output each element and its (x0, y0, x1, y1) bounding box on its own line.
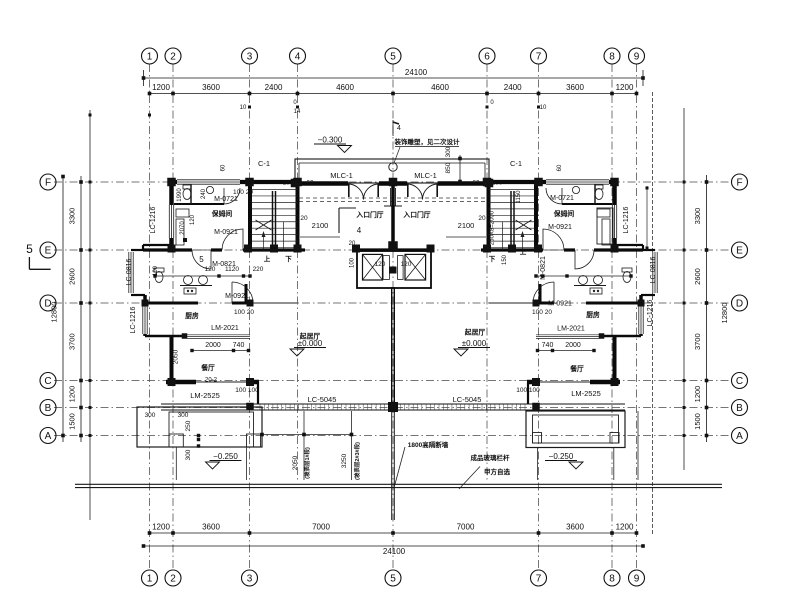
door M-0721 right (546, 188, 562, 204)
svg-text:1990: 1990 (177, 188, 183, 202)
right nanny bed (597, 208, 613, 244)
svg-text:1200: 1200 (616, 83, 634, 92)
level -0.250 right (545, 452, 583, 469)
svg-text:300: 300 (185, 449, 192, 460)
svg-text:100: 100 (153, 265, 159, 276)
left terrace (137, 407, 262, 480)
svg-text:LC-0816: LC-0816 (126, 258, 133, 285)
svg-text:300: 300 (445, 146, 452, 157)
svg-text:上: 上 (264, 254, 271, 263)
grid bubbles left A-F (40, 174, 56, 444)
svg-text:F: F (736, 178, 742, 189)
grid column lines 1-9 (150, 64, 637, 570)
svg-text:±0.000: ±0.000 (298, 339, 323, 348)
svg-text:厨房: 厨房 (185, 311, 199, 320)
right wall dim extension (646, 186, 649, 250)
row E interior wall (143, 248, 643, 251)
svg-text:5: 5 (199, 255, 204, 264)
right bay extension line (637, 411, 639, 480)
svg-text:1200: 1200 (152, 523, 170, 532)
terrace corner columns (246, 403, 540, 411)
svg-text:3700: 3700 (68, 333, 77, 350)
right stair labels (489, 247, 527, 263)
right unit fixtures (572, 185, 632, 294)
svg-text:C-1: C-1 (510, 159, 522, 168)
svg-text:2400: 2400 (265, 83, 283, 92)
svg-text:12800: 12800 (50, 302, 59, 323)
bath dimension line (153, 274, 632, 277)
svg-text:150: 150 (502, 254, 508, 265)
svg-text:8: 8 (609, 574, 615, 585)
svg-text:1150: 1150 (516, 190, 522, 204)
svg-text:20: 20 (300, 215, 308, 222)
svg-text:保姆间: 保姆间 (553, 209, 575, 218)
svg-text:300: 300 (178, 412, 189, 419)
svg-text:6: 6 (484, 52, 490, 63)
svg-text:M-0921: M-0921 (214, 229, 238, 236)
svg-text:A: A (45, 431, 52, 442)
svg-text:100 20: 100 20 (233, 189, 253, 196)
bottom overall dimension 24100 (142, 544, 645, 556)
section marker 4 top center (393, 120, 401, 136)
svg-text:保姆间: 保姆间 (211, 209, 233, 218)
svg-text:5: 5 (26, 242, 33, 256)
boundary line intersection dots (89, 114, 686, 438)
svg-text:2: 2 (170, 52, 176, 63)
center party wall upper (391, 183, 395, 250)
svg-text:装饰雕塑，见二次设计: 装饰雕塑，见二次设计 (394, 137, 461, 146)
col7 interior wall (534, 182, 538, 250)
svg-text:24100: 24100 (383, 547, 406, 556)
svg-text:M-0821: M-0821 (540, 256, 547, 280)
svg-text:100 100: 100 100 (516, 387, 540, 394)
top dimension chain (148, 83, 639, 95)
window LC-1216 right wall (612, 205, 618, 238)
svg-text:3700: 3700 (693, 333, 702, 350)
left hall corner mark (339, 208, 356, 233)
right exterior wall with bays (615, 180, 659, 379)
svg-text:LC-1216: LC-1216 (130, 306, 137, 333)
left exterior wall with bays (128, 180, 172, 379)
svg-text:7: 7 (536, 574, 542, 585)
center fence below (392, 411, 395, 520)
svg-text:7: 7 (536, 52, 542, 63)
svg-text:7000: 7000 (312, 523, 330, 532)
svg-text:3300: 3300 (693, 208, 702, 225)
svg-text:3600: 3600 (566, 523, 584, 532)
row D interior wall (145, 284, 641, 303)
svg-text:100 20: 100 20 (234, 309, 254, 316)
svg-text:成品玻璃栏杆: 成品玻璃栏杆 (471, 453, 511, 462)
top overall dimension 24100 (142, 68, 645, 86)
door M-0921 right hall (543, 229, 564, 250)
svg-text:1500: 1500 (693, 413, 702, 430)
site edge lines (75, 484, 722, 487)
window LC-1216 left wall (169, 205, 175, 238)
svg-text:2400: 2400 (504, 83, 522, 92)
svg-text:2000: 2000 (205, 342, 221, 349)
svg-text:入口门厅: 入口门厅 (403, 210, 430, 219)
svg-text:MLC-1: MLC-1 (330, 171, 353, 180)
svg-text:100: 100 (492, 180, 503, 187)
svg-text:LC-1216: LC-1216 (623, 206, 630, 233)
svg-text:M-0921: M-0921 (548, 301, 572, 308)
svg-text:5: 5 (390, 574, 396, 585)
svg-text:M-0921: M-0921 (225, 293, 249, 300)
svg-text:餐厅: 餐厅 (200, 363, 215, 372)
svg-text:−0.250: −0.250 (549, 452, 574, 461)
svg-text:MLC-1: MLC-1 (414, 171, 437, 180)
grid bubbles top 1-9 (142, 48, 645, 64)
svg-text:LM-2021: LM-2021 (211, 325, 239, 332)
svg-text:9: 9 (634, 52, 640, 63)
svg-text:1200: 1200 (616, 523, 634, 532)
svg-text:餐厅: 餐厅 (569, 364, 584, 373)
svg-text:B: B (736, 403, 743, 414)
level -0.250 left (206, 452, 242, 469)
svg-text:60: 60 (306, 180, 314, 187)
center entry step stub (384, 188, 402, 206)
level -0.300 porch (314, 136, 352, 153)
svg-text:LM-2525: LM-2525 (190, 391, 220, 400)
paving dimension lines (260, 411, 353, 480)
svg-text:60: 60 (472, 180, 480, 187)
svg-text:C-1: C-1 (258, 159, 270, 168)
svg-text:D: D (736, 299, 743, 310)
svg-text:1500: 1500 (68, 413, 77, 430)
svg-text:100: 100 (350, 257, 356, 268)
svg-text:M-0721: M-0721 (214, 196, 238, 203)
door M-0921 left hall (222, 229, 243, 250)
svg-text:厨房: 厨房 (586, 310, 600, 319)
svg-text:2600: 2600 (693, 268, 702, 285)
entry door MLC-1 left (348, 184, 364, 200)
svg-text:2070: 2070 (180, 221, 186, 235)
svg-text:LC-5045: LC-5045 (308, 395, 337, 404)
svg-text:3600: 3600 (202, 523, 220, 532)
svg-text:起居厅: 起居厅 (464, 328, 486, 337)
left hall dot (183, 238, 187, 242)
svg-text:4600: 4600 (336, 83, 354, 92)
svg-text:2: 2 (170, 574, 176, 585)
svg-text:12800: 12800 (720, 303, 729, 324)
door M-0821 right (575, 250, 594, 269)
svg-text:3250: 3250 (341, 453, 348, 468)
section marker 5 left edge (26, 242, 50, 269)
structural columns (142, 178, 645, 412)
svg-text:100 100: 100 100 (235, 387, 259, 394)
level 0.000 right (454, 339, 490, 356)
door M-0821 left (192, 250, 211, 269)
svg-text:5: 5 (390, 52, 396, 63)
right site boundary line (652, 92, 654, 535)
svg-text:上: 上 (520, 247, 527, 256)
svg-text:220: 220 (253, 266, 264, 273)
left staircase (252, 190, 298, 251)
svg-text:(坡表层1#段): (坡表层1#段) (303, 447, 311, 479)
svg-text:9: 9 (634, 574, 640, 585)
right nanny bath wall (562, 184, 612, 204)
right extension line (683, 108, 685, 470)
svg-text:LC-1216: LC-1216 (647, 299, 654, 326)
leader glass rail (459, 467, 480, 490)
center party wall lower (392, 287, 395, 403)
svg-text:4: 4 (295, 52, 301, 63)
row C wall right with LM-2525 (527, 382, 620, 404)
svg-text:4: 4 (397, 125, 401, 132)
hall 2100 dim lines (300, 236, 486, 238)
svg-text:250X8=2000: 250X8=2000 (490, 210, 496, 245)
bottom dimension chain (148, 523, 639, 535)
svg-text:100 20: 100 20 (532, 309, 552, 316)
door M-0721 left (224, 188, 240, 204)
right terrace (526, 411, 625, 480)
svg-text:下: 下 (489, 255, 496, 263)
svg-text:M-0921: M-0921 (548, 224, 572, 231)
svg-text:120: 120 (205, 266, 216, 273)
right staircase (489, 190, 535, 251)
svg-text:下: 下 (285, 255, 292, 263)
svg-text:LC-0816: LC-0816 (650, 256, 657, 283)
right dimension chain (693, 175, 729, 442)
leader partition wall (395, 447, 406, 486)
svg-text:A: A (736, 431, 743, 442)
svg-text:250: 250 (185, 420, 192, 431)
svg-text:1800高隔断墙: 1800高隔断墙 (408, 440, 449, 449)
left site boundary line (89, 110, 91, 520)
svg-text:24100: 24100 (405, 68, 428, 77)
row F exterior wall with C-1 windows (169, 179, 617, 185)
svg-text:740: 740 (233, 342, 245, 349)
svg-text:±0.000: ±0.000 (462, 339, 487, 348)
svg-text:(坡表层2#3#段): (坡表层2#3#段) (353, 442, 361, 480)
porch steps dashed (299, 198, 485, 202)
svg-text:7000: 7000 (457, 523, 475, 532)
svg-text:20-2: 20-2 (205, 378, 218, 384)
sculpture note underline (395, 146, 459, 148)
grid row lines A-F (54, 182, 732, 436)
svg-text:1200: 1200 (693, 386, 702, 403)
svg-text:740: 740 (542, 342, 554, 349)
col6 hall wall (487, 183, 491, 250)
level 0.000 left (290, 339, 326, 356)
svg-text:F: F (45, 178, 51, 189)
svg-text:4600: 4600 (431, 83, 449, 92)
entry door MLC-1 right (407, 184, 423, 200)
left unit fixtures (154, 185, 214, 294)
svg-text:E: E (736, 246, 743, 257)
svg-text:1200: 1200 (152, 83, 170, 92)
svg-text:1: 1 (147, 52, 153, 63)
window LC-1216 left kitchen (142, 301, 148, 334)
svg-text:3600: 3600 (566, 83, 584, 92)
svg-text:1120: 1120 (225, 266, 239, 273)
svg-text:−0.250: −0.250 (213, 452, 238, 461)
door M-0921 right kitchen (533, 282, 554, 303)
svg-text:C: C (736, 376, 743, 387)
svg-text:1: 1 (147, 574, 153, 585)
left nanny bath wall (174, 184, 224, 204)
svg-text:3600: 3600 (202, 83, 220, 92)
svg-text:300: 300 (145, 412, 156, 419)
svg-text:LM-2021: LM-2021 (557, 326, 585, 333)
svg-text:LC-1216: LC-1216 (150, 206, 157, 233)
door M-0921 left kitchen (232, 282, 253, 303)
svg-text:E: E (45, 246, 52, 257)
window LC-1216 right kitchen (638, 301, 644, 334)
svg-text:120: 120 (375, 261, 386, 268)
svg-text:120: 120 (401, 261, 412, 268)
svg-text:2050: 2050 (173, 349, 180, 364)
svg-text:60: 60 (221, 164, 227, 171)
row B window band LC-5045 (161, 404, 625, 410)
svg-text:10: 10 (240, 105, 247, 111)
svg-text:2000: 2000 (565, 342, 581, 349)
svg-text:14: 14 (294, 109, 301, 115)
row C wall left with LM-2525 (166, 382, 259, 404)
svg-text:1200: 1200 (68, 386, 77, 403)
svg-text:3: 3 (247, 52, 253, 63)
svg-text:8: 8 (609, 52, 615, 63)
grid bubbles right A-F (732, 174, 748, 444)
svg-text:3: 3 (247, 574, 253, 585)
svg-text:10: 10 (540, 105, 547, 111)
svg-text:2100: 2100 (312, 221, 329, 230)
left kitchen south wall LM-2021 (145, 333, 250, 339)
svg-text:LC-5045: LC-5045 (453, 395, 482, 404)
porch vertical dim (458, 155, 462, 183)
col4 hall wall (296, 183, 300, 250)
svg-text:3300: 3300 (68, 208, 77, 225)
top small offset dims (240, 100, 547, 115)
svg-text:120: 120 (190, 214, 196, 225)
svg-text:C: C (44, 376, 51, 387)
sculpture leader (394, 147, 400, 163)
svg-text:2100: 2100 (458, 221, 475, 230)
svg-text:B: B (45, 403, 52, 414)
svg-text:100: 100 (283, 180, 294, 187)
kitchen dim lines (190, 349, 595, 352)
svg-text:2600: 2600 (68, 268, 77, 285)
right kitchen south wall LM-2021 (536, 333, 641, 339)
svg-text:−0.300: −0.300 (318, 136, 343, 145)
svg-text:M-0721: M-0721 (550, 195, 574, 202)
svg-text:20: 20 (478, 215, 486, 222)
svg-text:4: 4 (357, 226, 362, 235)
svg-text:240: 240 (201, 188, 207, 199)
left dimension chain (50, 175, 83, 442)
svg-text:2050: 2050 (292, 455, 299, 470)
entry porch outline (295, 159, 489, 183)
left stair labels (264, 254, 293, 263)
grid bubbles bottom (142, 570, 645, 586)
svg-text:LM-2525: LM-2525 (571, 389, 601, 398)
svg-text:850: 850 (445, 162, 452, 173)
col3 interior wall (248, 182, 252, 250)
svg-text:入口门厅: 入口门厅 (356, 210, 383, 219)
elevator shafts (357, 251, 431, 288)
svg-text:60: 60 (557, 164, 563, 171)
svg-text:甲方自选: 甲方自选 (484, 467, 511, 476)
